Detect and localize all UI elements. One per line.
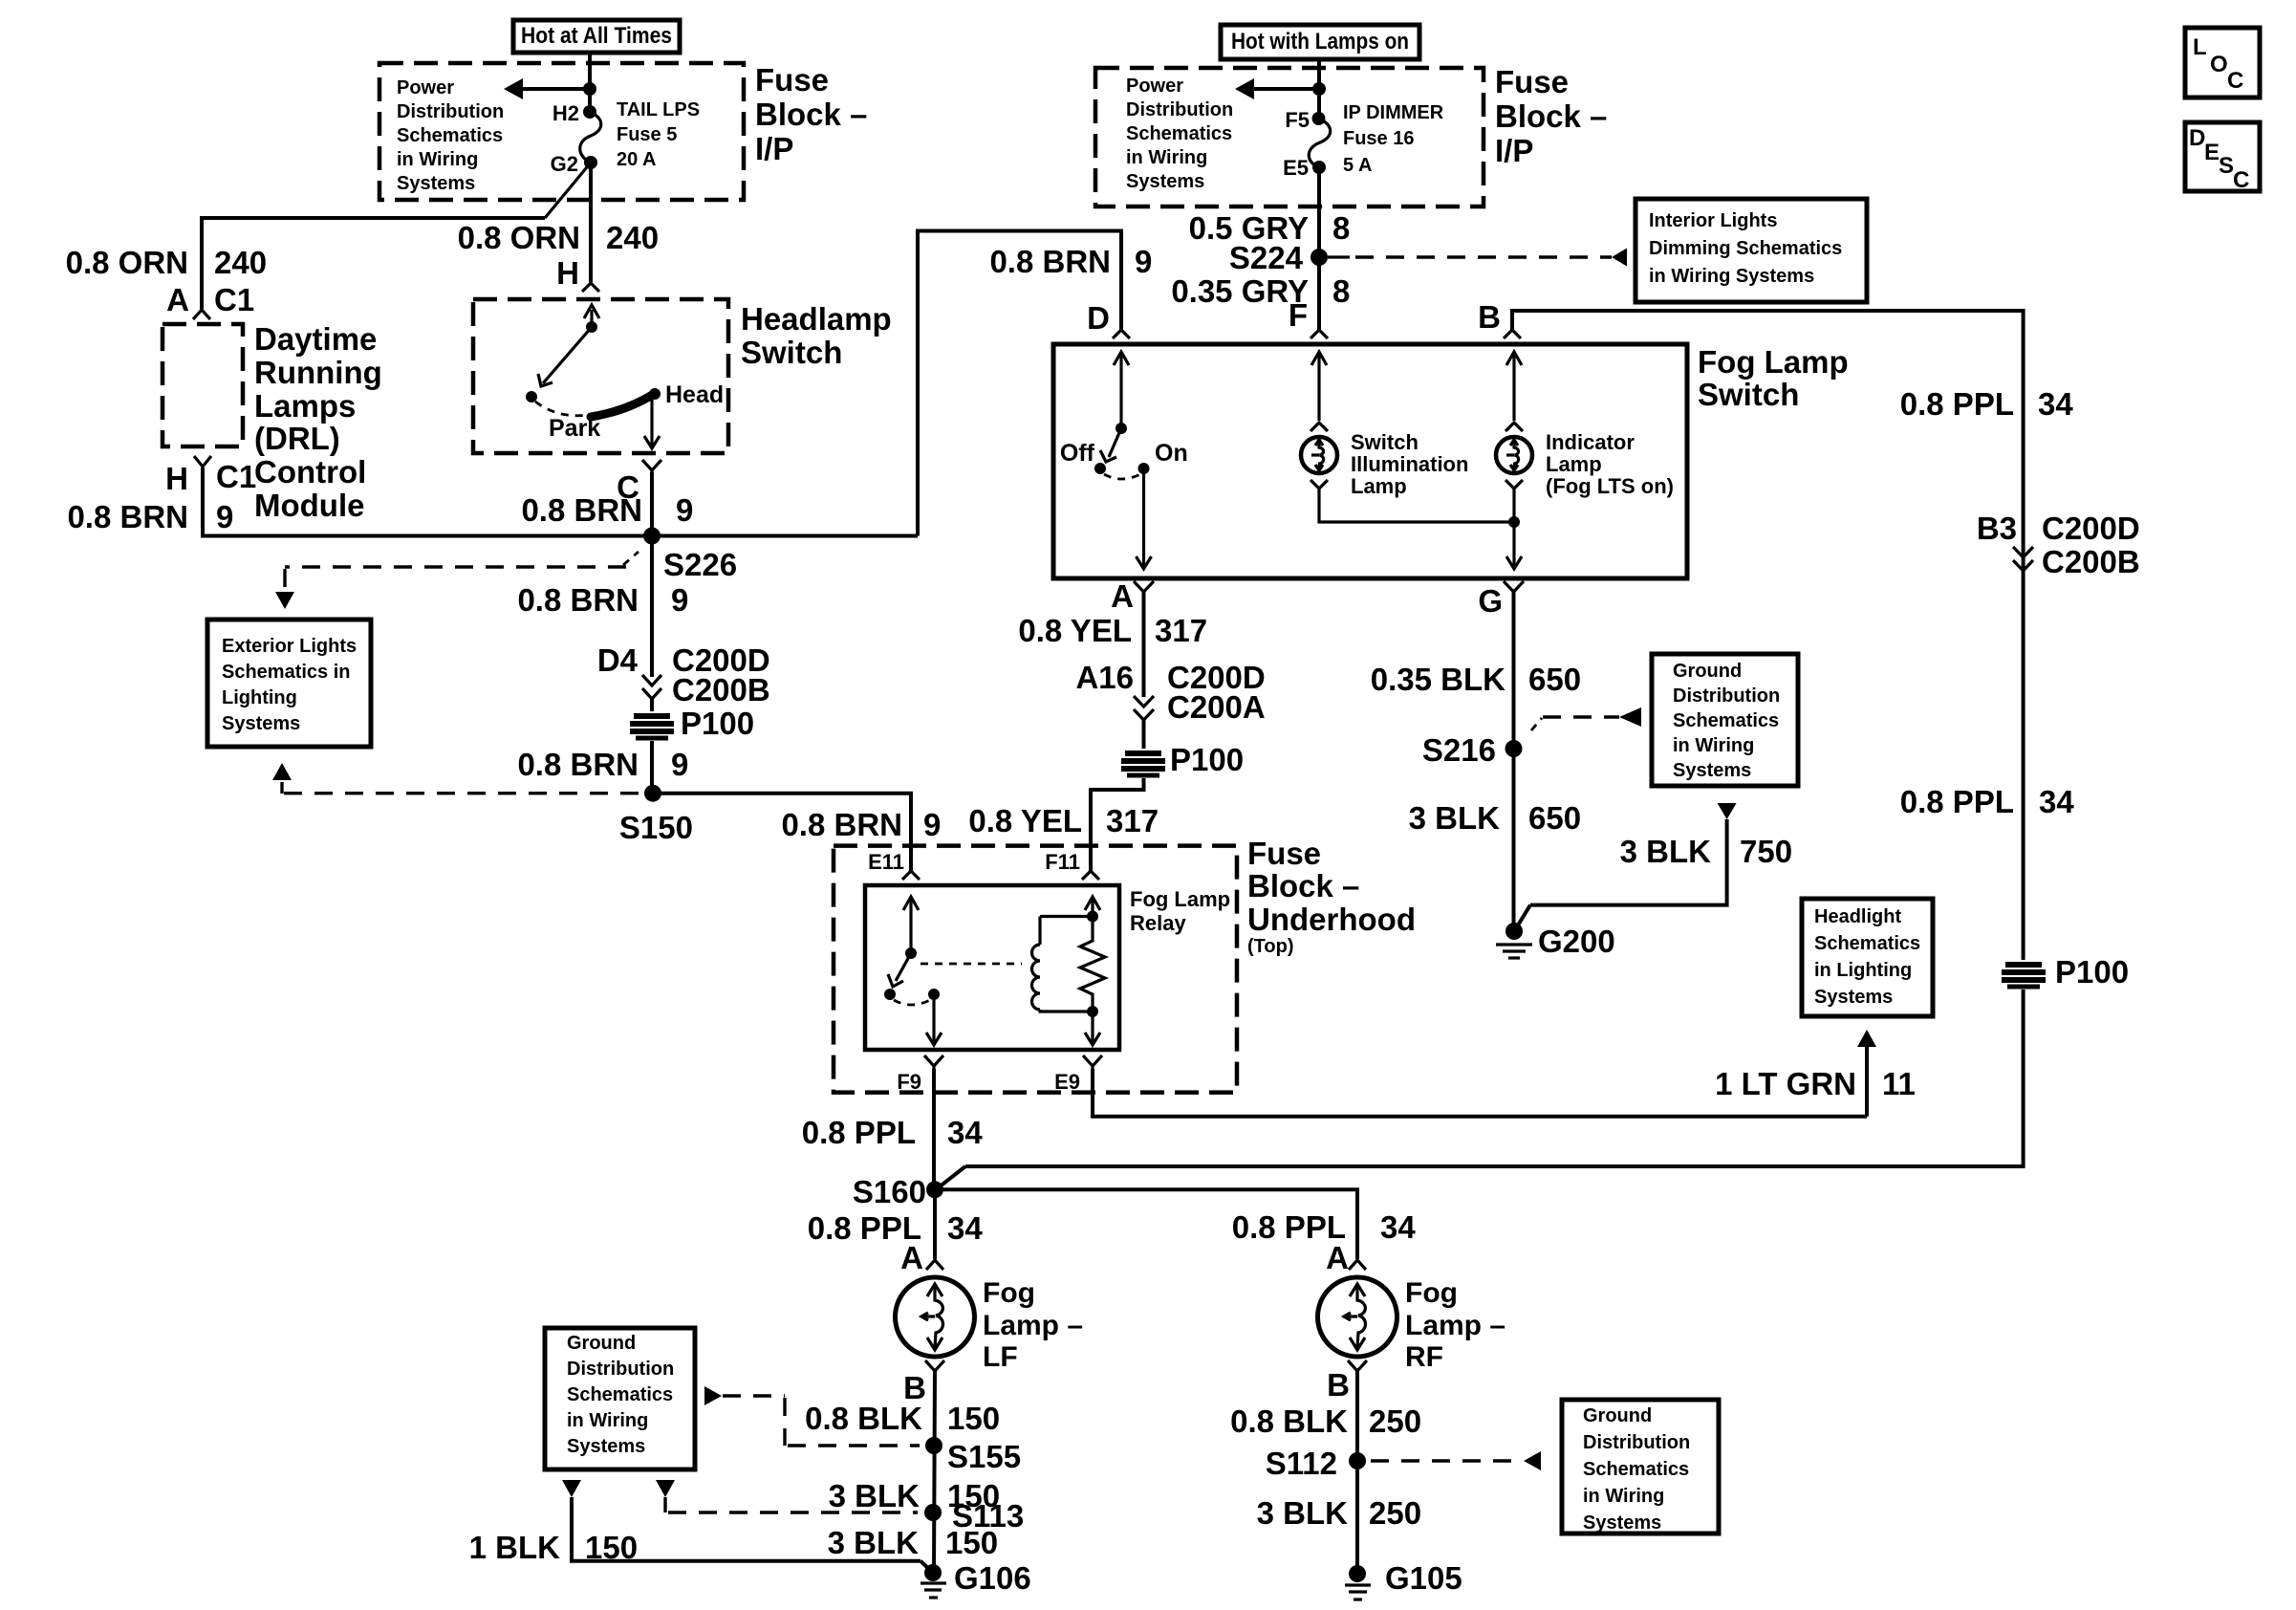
svg-text:IP DIMMER: IP DIMMER (1343, 102, 1444, 123)
svg-text:Systems: Systems (222, 713, 300, 734)
svg-text:LF: LF (983, 1341, 1018, 1373)
arrow from below into exterior lights box (up) (272, 763, 292, 780)
label: Fuse Block - Underhood (Top) (1247, 836, 1416, 957)
label: 3 BLK 150 (first) (829, 1478, 1000, 1513)
svg-text:F9: F9 (897, 1070, 921, 1094)
wire: 1 LT GRN riser (1865, 1047, 1869, 1117)
relay: common feed arrow from E11 (903, 897, 919, 953)
svg-text:Fog Lamp: Fog Lamp (1130, 887, 1230, 911)
text: Ground Distribution Schematics in Wiring Systems (bottom right) (1583, 1405, 1690, 1534)
wire: DRL H pin down to S226 bus (203, 468, 918, 536)
svg-text:Underhood: Underhood (1247, 902, 1416, 937)
headlamp switch: pivot dot (586, 321, 597, 333)
svg-text:Off: Off (1060, 440, 1095, 467)
relay: pivot dot (905, 947, 917, 959)
svg-text:150: 150 (947, 1401, 1000, 1436)
wire: B pin feed from right riser (1512, 311, 2024, 960)
dashed reference: to S113 (665, 1497, 918, 1512)
fog switch: dashed travel arc (1104, 474, 1140, 479)
connector chevron E9 (1083, 1055, 1102, 1066)
relay: resistor zigzag (1080, 917, 1105, 1012)
arrow to power distribution (left) (504, 78, 523, 99)
svg-text:9: 9 (671, 582, 688, 618)
arrow into headlight schematics box (up) (1857, 1030, 1876, 1047)
exterior lights schematics box (207, 620, 371, 747)
label: 0.35 GRY 8 (1171, 273, 1350, 309)
svg-text:Module: Module (254, 488, 364, 523)
fog lamp relay box (865, 885, 1119, 1050)
svg-text:0.8 PPL: 0.8 PPL (1900, 784, 2014, 819)
text: Ground Distribution Schematics in Wiring Systems (middle) (1673, 661, 1780, 781)
svg-text:S160: S160 (853, 1174, 926, 1209)
arrow into exterior lights box (down) (275, 592, 294, 609)
relay: output to E9 with arrow (1085, 1012, 1100, 1045)
label: 0.8 BRN 9 (at C) (521, 492, 693, 528)
ground distribution schematics box (bottom left) (545, 1328, 695, 1469)
fog switch: G output arrow (1506, 522, 1522, 569)
label: 0.8 BRN 9 (below P100) (517, 747, 688, 782)
arrow to power distribution (right) (1235, 78, 1254, 99)
wire: G2 diagonal branch to DRL feed (545, 163, 591, 218)
svg-text:240: 240 (214, 245, 267, 280)
svg-text:Power: Power (1126, 76, 1183, 97)
svg-text:S150: S150 (619, 810, 693, 845)
switch illumination lamp (1301, 437, 1337, 473)
svg-text:B: B (1478, 299, 1501, 335)
wire: LF lamp down to G106 (934, 1371, 935, 1573)
svg-text:3 BLK: 3 BLK (1257, 1495, 1349, 1531)
connector chevron B below LF lamp (925, 1360, 944, 1371)
svg-text:RF: RF (1405, 1341, 1443, 1373)
svg-text:150: 150 (585, 1530, 638, 1565)
junction on hot feed (left) (583, 82, 596, 96)
relay: coil top junction dot (1087, 911, 1098, 923)
headlamp switch: Head wiper thick arc (591, 394, 654, 417)
svg-text:(DRL): (DRL) (254, 421, 340, 456)
svg-text:C200B: C200B (2042, 544, 2140, 579)
svg-text:0.8 BRN: 0.8 BRN (781, 807, 902, 842)
arrow below ground box (right, down) (656, 1480, 675, 1497)
connector chevron E11 (902, 871, 920, 880)
connector chevron H/C1 below DRL (194, 456, 211, 467)
splice S150 (644, 785, 661, 802)
label: 0.8 PPL 34 (RF feed) (1232, 1209, 1417, 1245)
ground G200 (1496, 923, 1532, 958)
svg-text:in Wiring: in Wiring (397, 149, 478, 170)
connector chevron A/C1 into DRL (193, 310, 210, 319)
label: Fuse Block - I/P (left) (755, 62, 867, 166)
svg-text:E9: E9 (1054, 1070, 1080, 1094)
junction dot lamps common (1508, 516, 1520, 528)
label: 0.8 YEL 317 (F11 feed) (968, 803, 1159, 838)
svg-text:C1: C1 (216, 459, 256, 494)
svg-text:34: 34 (1380, 1209, 1416, 1245)
label: 0.8 YEL 317 (1018, 613, 1207, 648)
svg-text:A: A (1326, 1240, 1349, 1275)
arrow below ground box (left, down) (562, 1480, 581, 1497)
svg-text:Systems: Systems (1814, 987, 1893, 1008)
wire: hot feed into fuse block (right) (1317, 59, 1321, 119)
label: 0.8 BLK 250 (1230, 1403, 1421, 1439)
headlamp switch: wiper arm toward Park (538, 327, 592, 386)
svg-text:Relay: Relay (1130, 911, 1186, 935)
headlamp switch: output wire to C with arrow (644, 394, 660, 448)
relay: dashed link to coil (921, 963, 1022, 966)
wire: E5 down to S224 and F pin (1317, 167, 1321, 330)
label: IP DIMMER Fuse 16 5 A (1343, 102, 1444, 176)
label: 0.8 PPL 34 (below F9) (802, 1115, 984, 1150)
fog switch: indicator lamp feed arrow (1506, 352, 1522, 421)
label: 0.8 ORN 240 (left) (66, 245, 267, 280)
DRL control module dashed box (162, 324, 243, 446)
relay: switched output to F9 with arrow (926, 994, 942, 1045)
arrow into ground box (bottom right) (1524, 1451, 1541, 1470)
splice S224 (1310, 249, 1328, 266)
svg-text:Exterior Lights: Exterior Lights (222, 636, 357, 657)
svg-text:3 BLK: 3 BLK (829, 1478, 921, 1513)
svg-text:317: 317 (1106, 803, 1159, 838)
label: B3 C200D (right riser) (1977, 511, 2140, 546)
svg-text:0.8 YEL: 0.8 YEL (968, 803, 1082, 838)
text: Ground Distribution Schematics in Wiring Systems (bottom left) (567, 1333, 674, 1457)
connector chevron A above RF lamp (1349, 1260, 1366, 1270)
svg-text:I/P: I/P (1495, 133, 1533, 168)
svg-text:G105: G105 (1385, 1560, 1462, 1596)
label: 0.8 ORN 240 (center) (458, 220, 659, 255)
wire: A pin down through C200 to P100 (1142, 592, 1146, 697)
grommet P100 (left) (630, 716, 674, 738)
svg-text:Fuse: Fuse (1495, 64, 1569, 99)
svg-text:0.8 ORN: 0.8 ORN (458, 220, 580, 255)
svg-text:in Wiring: in Wiring (1673, 735, 1754, 756)
label: Indicator Lamp (Fog LTS on) (1546, 430, 1674, 498)
svg-text:D: D (2189, 125, 2205, 151)
svg-text:I/P: I/P (755, 131, 793, 166)
svg-text:3 BLK: 3 BLK (1409, 800, 1501, 836)
connector C200D/C200B double chevron (642, 675, 661, 699)
ground G105 (1345, 1565, 1371, 1599)
svg-text:Systems: Systems (397, 173, 475, 194)
connector chevron F11 (1082, 871, 1099, 880)
svg-text:Interior Lights: Interior Lights (1649, 210, 1777, 231)
indicator lamp (1496, 437, 1532, 473)
svg-text:F11: F11 (1045, 850, 1080, 874)
fog switch: Off contact dot (1094, 463, 1106, 474)
svg-text:250: 250 (1369, 1403, 1421, 1439)
svg-text:Schematics: Schematics (1583, 1459, 1689, 1480)
dashed reference: S112 to ground box (bottom right) (1371, 1459, 1524, 1462)
svg-text:(Fog LTS on): (Fog LTS on) (1546, 474, 1674, 498)
svg-text:Distribution: Distribution (567, 1359, 674, 1380)
svg-text:Fuse 5: Fuse 5 (617, 124, 677, 145)
text: Headlight Schematics in Lighting Systems (1814, 906, 1920, 1008)
wire: 3 BLK 750 to G200 (1530, 819, 1727, 905)
ground G106 (921, 1564, 946, 1598)
wire: power distribution branch with arrow (right) (1252, 87, 1319, 91)
wire: RF lamp down to G105 (1355, 1371, 1359, 1574)
dashed reference: S216 to ground distribution box (1531, 717, 1619, 730)
arrow out of ground distribution box (down) (1718, 803, 1737, 819)
fog switch: pivot dot (1116, 423, 1127, 434)
connector C200D/C200A double chevron (1134, 696, 1154, 720)
wire: illumination lamp to common ground link (1319, 489, 1514, 522)
svg-text:S: S (2219, 153, 2234, 179)
fog lamp RF (1318, 1277, 1397, 1357)
label: TAIL LPS Fuse 5 20 A (617, 99, 700, 170)
ground distribution schematics box (middle) (1652, 654, 1798, 786)
svg-text:Switch: Switch (741, 335, 842, 370)
svg-text:Distribution: Distribution (397, 101, 504, 122)
svg-text:in Wiring: in Wiring (1583, 1486, 1664, 1507)
splice S226 (643, 528, 661, 545)
svg-text:A: A (166, 282, 189, 317)
svg-text:S155: S155 (947, 1439, 1021, 1474)
svg-text:On: On (1155, 440, 1188, 467)
svg-text:G2: G2 (551, 152, 578, 176)
svg-text:E: E (2204, 140, 2220, 165)
svg-text:Running: Running (254, 355, 382, 390)
LOC box (2185, 28, 2260, 98)
svg-text:D: D (1087, 300, 1110, 336)
label: 0.8 PPL 34 (below S160) (808, 1210, 984, 1246)
svg-text:Distribution: Distribution (1126, 99, 1233, 120)
svg-text:3 BLK: 3 BLK (1620, 834, 1712, 869)
wire: 0.8 ORN 240 drop from G2 to headlamp switch (589, 163, 593, 282)
svg-text:D4: D4 (597, 642, 639, 678)
svg-text:Block –: Block – (1495, 98, 1607, 134)
svg-text:P100: P100 (1170, 742, 1244, 777)
svg-text:Schematics: Schematics (1126, 123, 1232, 144)
svg-text:5 A: 5 A (1343, 155, 1372, 176)
svg-text:650: 650 (1528, 662, 1581, 697)
svg-text:Ground: Ground (567, 1333, 636, 1354)
svg-text:9: 9 (676, 492, 693, 528)
headlamp switch: dashed travel arc (535, 402, 589, 416)
svg-text:0.8 BRN: 0.8 BRN (517, 582, 639, 618)
svg-text:Fog: Fog (983, 1277, 1035, 1309)
text: Interior Lights Dimming Schematics in Wiring Systems (1649, 210, 1842, 287)
connector C200D/C200B double chevron (right riser) (2013, 547, 2033, 571)
svg-text:H2: H2 (552, 101, 579, 125)
wire: power distribution branch with arrow (left) (521, 87, 590, 91)
svg-text:0.8 BLK: 0.8 BLK (1230, 1403, 1348, 1439)
svg-text:F: F (1289, 297, 1308, 333)
svg-text:750: 750 (1740, 834, 1792, 869)
fuse F1 TAIL LPS fuse element (580, 112, 601, 163)
fog switch: On output wire with arrow (1137, 468, 1152, 569)
wire: C200A to P100 (middle) (1142, 720, 1146, 749)
svg-text:250: 250 (1369, 1495, 1421, 1531)
svg-text:H: H (556, 255, 579, 291)
connector chevron D into fog lamp switch (1113, 330, 1130, 338)
svg-text:Headlight: Headlight (1814, 906, 1901, 927)
svg-text:Lighting: Lighting (222, 687, 297, 708)
svg-text:0.8 BRN: 0.8 BRN (67, 499, 188, 534)
label: 0.8 PPL 34 (right riser lower) (1900, 784, 2075, 819)
svg-text:Lamp: Lamp (1351, 474, 1407, 498)
dashed reference: ground box to S155 (723, 1396, 920, 1446)
svg-text:240: 240 (606, 220, 659, 255)
wire: C pin down to S226 (650, 472, 654, 677)
svg-text:Systems: Systems (1673, 760, 1751, 781)
text: Power Distribution Schematics in Wiring Systems (left) (397, 77, 504, 194)
svg-text:E11: E11 (868, 850, 904, 874)
label: D4 C200D (597, 642, 770, 678)
svg-text:S112: S112 (1266, 1446, 1337, 1481)
svg-text:Switch: Switch (1698, 377, 1799, 412)
svg-text:34: 34 (2039, 784, 2074, 819)
splice S160 (926, 1181, 943, 1198)
svg-text:Fuse 16: Fuse 16 (1343, 128, 1414, 149)
relay: coil bottom junction dot (1087, 1006, 1098, 1017)
svg-text:Control: Control (254, 454, 366, 490)
svg-text:11: 11 (1882, 1066, 1916, 1101)
svg-text:8: 8 (1332, 210, 1350, 246)
svg-text:C: C (2227, 68, 2243, 94)
headlamp switch: feed arrow into common (584, 305, 599, 327)
svg-text:Lamps: Lamps (254, 388, 356, 424)
svg-text:0.8 ORN: 0.8 ORN (66, 245, 188, 280)
svg-text:A16: A16 (1075, 660, 1134, 695)
svg-text:650: 650 (1528, 800, 1581, 836)
label: 0.8 BRN 9 (left) (67, 499, 233, 534)
svg-text:0.8 BRN: 0.8 BRN (989, 244, 1111, 279)
svg-text:C1: C1 (214, 282, 254, 317)
text: Exterior Lights Schematics in Lighting Systems (222, 636, 357, 734)
banner: Hot at All Times box (513, 20, 680, 53)
label: 0.8 BRN 9 (D feed) (989, 244, 1152, 279)
svg-text:34: 34 (947, 1115, 983, 1150)
pin A C1 labels (166, 282, 254, 317)
svg-text:Schematics: Schematics (1814, 933, 1920, 954)
svg-text:150: 150 (945, 1525, 998, 1560)
fog switch: wiper arm with arrow (1100, 428, 1121, 462)
fuse block I/P (left) dashed box (379, 63, 744, 200)
arrow into interior lights box (1612, 249, 1627, 267)
fog switch: D feed arrow to pivot (1114, 352, 1129, 428)
svg-text:G200: G200 (1538, 924, 1615, 959)
fuse block I/P (right) dashed box (1095, 68, 1484, 207)
svg-text:Lamp –: Lamp – (1405, 1310, 1505, 1341)
wire: P100 jog to F11 (1091, 778, 1144, 871)
svg-text:1 LT GRN: 1 LT GRN (1715, 1066, 1856, 1101)
svg-text:Schematics: Schematics (1673, 710, 1779, 731)
junction on hot feed (right) (1312, 82, 1326, 96)
svg-text:Lamp: Lamp (1546, 452, 1602, 476)
label: A16 C200D (1075, 660, 1265, 695)
svg-text:Hot with Lamps on: Hot with Lamps on (1231, 29, 1409, 54)
svg-text:1 BLK: 1 BLK (469, 1530, 561, 1565)
svg-text:Schematics: Schematics (397, 125, 503, 146)
label: 3 BLK 750 (1620, 834, 1792, 869)
wire: S160 down to LF fog lamp (933, 1189, 937, 1259)
wire: hot feed into fuse block (left) (588, 53, 592, 112)
svg-text:Head: Head (665, 381, 724, 408)
wire: S226 to fog lamp switch D pin (918, 231, 1121, 536)
fog switch: chevron below indicator lamp (1505, 480, 1523, 489)
text: Power Distribution Schematics in Wiring Systems (right) (1126, 76, 1233, 192)
label: 3 BLK 150 (second) (828, 1525, 998, 1560)
svg-text:Block –: Block – (1247, 868, 1359, 903)
label: Fog Lamp Relay (1130, 887, 1230, 935)
wire: G pin down to G200 (1512, 592, 1516, 931)
grommet P100 (middle) (1121, 753, 1165, 775)
svg-text:P100: P100 (681, 706, 754, 741)
wire: E9 to 1 LT GRN riser (1093, 1069, 1867, 1117)
svg-text:L: L (2193, 34, 2207, 60)
svg-text:C: C (2233, 167, 2249, 193)
svg-text:Fog: Fog (1405, 1277, 1458, 1309)
dashed reference: S224 to interior lights box (1328, 255, 1612, 258)
fog lamp switch box (1053, 344, 1687, 578)
svg-text:A: A (900, 1240, 923, 1275)
svg-text:Fuse: Fuse (755, 62, 829, 98)
label: 0.5 GRY 8 (1189, 210, 1351, 246)
svg-text:Fog Lamp: Fog Lamp (1698, 344, 1849, 380)
svg-text:Dimming Schematics: Dimming Schematics (1649, 238, 1842, 259)
relay: NC contact dot (884, 989, 896, 1000)
connector chevron B into fog lamp switch (1504, 330, 1521, 338)
svg-text:3 BLK: 3 BLK (828, 1525, 920, 1560)
svg-text:Lamp –: Lamp – (983, 1310, 1083, 1341)
svg-text:Ground: Ground (1583, 1405, 1652, 1426)
wire: 1 BLK 150 to G106 (572, 1497, 921, 1561)
svg-text:in Lighting: in Lighting (1814, 960, 1912, 981)
label: 1 BLK 150 (469, 1530, 638, 1565)
label: 1 LT GRN 11 (1715, 1066, 1916, 1101)
fuse: IP DIMMER fuse element (1309, 119, 1330, 167)
grommet P100 (right) (2002, 965, 2046, 987)
wire: indicator lamp to G output (1512, 489, 1515, 522)
svg-text:Power: Power (397, 77, 454, 98)
label: 0.35 BLK 650 (1371, 662, 1581, 697)
svg-text:S224: S224 (1229, 240, 1304, 275)
connector chevron F into fog lamp switch (1310, 330, 1328, 338)
wire: S150 to E11 (653, 794, 911, 871)
svg-text:0.8 YEL: 0.8 YEL (1018, 613, 1132, 648)
svg-text:G106: G106 (954, 1560, 1031, 1596)
pin H2 terminal dot (583, 105, 596, 119)
dashed reference: S150 to exterior lights box (282, 782, 639, 794)
label: 3 BLK 250 (1257, 1495, 1421, 1531)
splice S113 (924, 1504, 942, 1521)
label: Headlamp Switch (741, 301, 892, 370)
svg-text:G: G (1478, 583, 1503, 619)
svg-text:9: 9 (216, 499, 233, 534)
pin H C1 labels below DRL (165, 459, 256, 496)
label: 3 BLK 650 (1409, 800, 1581, 836)
svg-text:B: B (1327, 1367, 1350, 1403)
wire: C200B to P100 (650, 699, 654, 711)
svg-text:0.8 BLK: 0.8 BLK (805, 1401, 922, 1436)
svg-text:B3: B3 (1977, 511, 2017, 546)
svg-text:8: 8 (1332, 273, 1350, 309)
fog switch: chevron above indicator lamp (1505, 423, 1523, 431)
svg-text:Systems: Systems (567, 1436, 645, 1457)
pin F5 terminal dot (1312, 112, 1326, 125)
svg-text:C200D: C200D (2042, 511, 2140, 546)
connector chevron B below RF lamp (1348, 1360, 1367, 1371)
DESC box (2185, 122, 2260, 193)
splice S112 (1349, 1452, 1366, 1469)
fog lamp LF (896, 1277, 975, 1357)
relay: F11 feed arrow (1085, 897, 1100, 916)
svg-text:C200B: C200B (672, 672, 770, 707)
svg-text:0.8 BRN: 0.8 BRN (521, 492, 642, 528)
connector chevron G below fog switch (1504, 581, 1524, 592)
svg-text:20 A: 20 A (617, 149, 657, 170)
wire: S160 branch to RF fog lamp (935, 1189, 1357, 1259)
